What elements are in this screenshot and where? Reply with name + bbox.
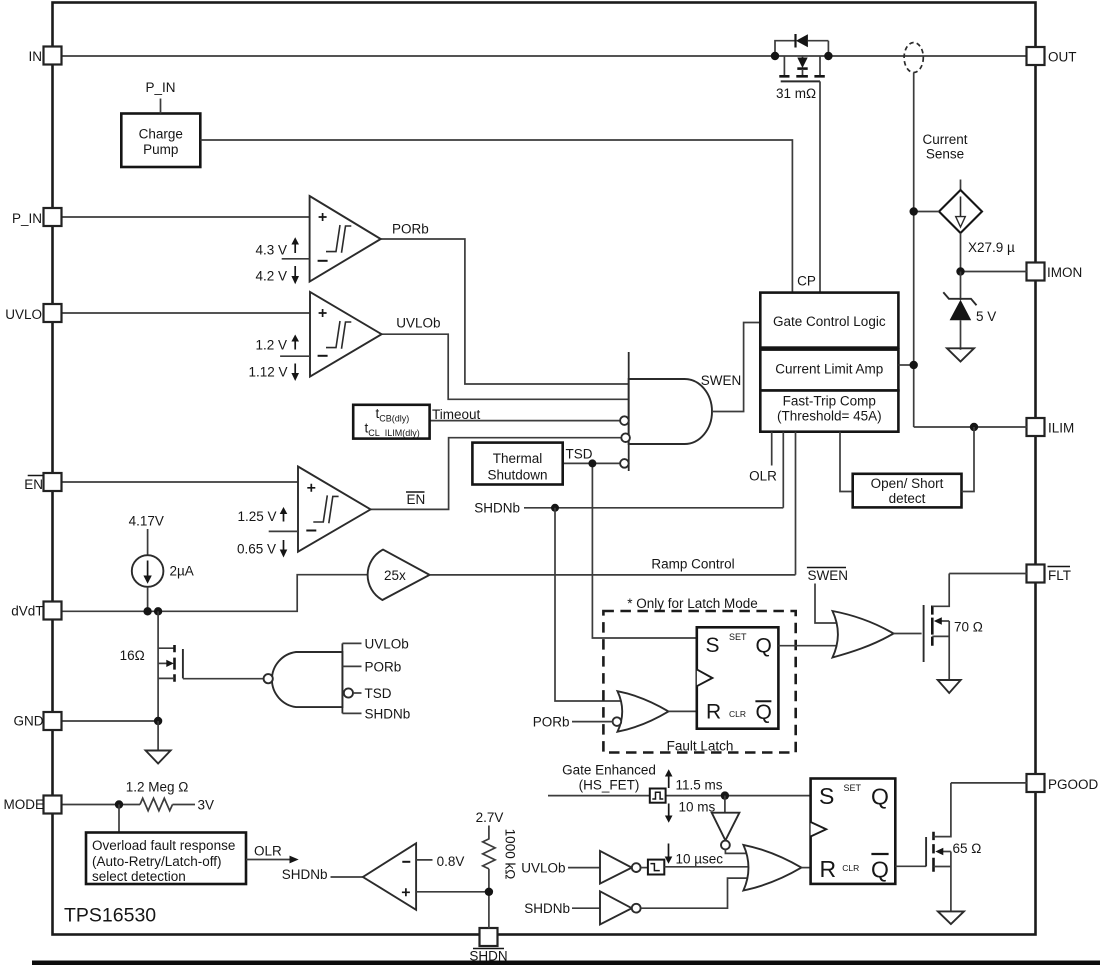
- wire SWEN-bar to FLT OR gate: [815, 584, 848, 624]
- wire EN comparator output to AND gate input 4: [371, 438, 622, 510]
- wire current limit amp output to sense line: [898, 364, 913, 366]
- overload fault response block: [86, 833, 246, 885]
- svg-text:Current Limit Amp: Current Limit Amp: [775, 362, 883, 377]
- svg-text:SWEN: SWEN: [808, 568, 849, 583]
- svg-text:Q: Q: [756, 635, 772, 658]
- svg-text:SHDNb: SHDNb: [524, 901, 570, 916]
- transistor Q4 65 Ohm PGOOD pulldown: [926, 783, 981, 911]
- pin GND: [14, 712, 62, 730]
- svg-text:Shutdown: Shutdown: [487, 468, 547, 483]
- pin MODE: [4, 796, 62, 814]
- svg-text:CP: CP: [797, 274, 816, 289]
- svg-text:X27.9 µ: X27.9 µ: [968, 240, 1015, 255]
- svg-text:select detection: select detection: [92, 869, 186, 884]
- wire one-shot to PGOOD OR gate: [664, 866, 762, 868]
- svg-text:Thermal: Thermal: [493, 451, 543, 466]
- svg-text:Sense: Sense: [926, 147, 964, 162]
- svg-text:Ramp Control: Ramp Control: [651, 557, 734, 572]
- junction dot divider / comparator: [485, 888, 493, 896]
- wire ILIM rail: [914, 426, 1027, 428]
- svg-text:(HS_FET): (HS_FET): [579, 778, 640, 793]
- svg-text:25x: 25x: [384, 568, 406, 583]
- pin IMON: [1027, 263, 1083, 281]
- comparator U4 UVLO (1.2V/1.12V): [310, 292, 382, 377]
- svg-text:Overload fault response: Overload fault response: [92, 838, 235, 853]
- svg-text:4.17V: 4.17V: [129, 514, 164, 529]
- svg-text:65 Ω: 65 Ω: [953, 841, 982, 856]
- pin PGOOD: [1027, 774, 1099, 792]
- wire resistor to 3V: [173, 804, 196, 806]
- wire PORb: comparator output to AND gate input 1: [381, 239, 629, 384]
- ground symbol below Q3: [938, 680, 961, 693]
- top reverse diode D1 across FET: [775, 34, 828, 56]
- svg-text:CLR: CLR: [842, 863, 859, 873]
- amplifier U8 25x ramp amp: [368, 550, 430, 600]
- wire P_IN pin to POR comparator: [62, 216, 310, 218]
- junction dot dVdT rail / FET drain: [154, 607, 162, 615]
- svg-text:EN: EN: [24, 477, 43, 492]
- svg-text:S: S: [819, 783, 834, 809]
- charge pump U2: [121, 114, 200, 168]
- wire 0.8V reference to U12: [416, 854, 464, 869]
- latch U17 PGOOD latch (S/R): [811, 779, 896, 884]
- source stub: [819, 56, 821, 75]
- pin FLT (active low): [1027, 565, 1072, 584]
- svg-text:SWEN: SWEN: [701, 373, 742, 388]
- svg-text:detect: detect: [889, 491, 926, 506]
- bottom page rule: [32, 961, 1100, 965]
- junction dot current source / dVdT rail: [143, 607, 151, 615]
- svg-text:Fault Latch: Fault Latch: [667, 739, 734, 754]
- junction dot GND rail: [154, 717, 162, 725]
- svg-text:P_IN: P_IN: [12, 211, 42, 226]
- svg-text:Current: Current: [922, 132, 967, 147]
- OR gate U16 (PGOOD latch reset): [743, 845, 801, 891]
- transistor Q2 16 Ohm dVdT FET: [120, 611, 264, 721]
- wire fast-trip to open/short detect (left): [840, 432, 853, 492]
- input stub PORb of U7: [342, 660, 401, 675]
- wire U15 output to PGOOD OR gate: [641, 878, 758, 908]
- AND gate U6 (switch enable): [629, 352, 712, 471]
- wire MODE to overload box: [118, 805, 120, 833]
- svg-text:0.65 V: 0.65 V: [237, 542, 276, 557]
- comparator U3 POR (4.3V/4.2V): [310, 196, 381, 282]
- inverter U15 SHDNb: [524, 891, 640, 924]
- svg-text:* Only for Latch Mode: * Only for Latch Mode: [627, 596, 758, 611]
- OR gate U11 (drives FLT FET): [833, 611, 894, 658]
- svg-text:FLT: FLT: [1048, 568, 1071, 583]
- junction dot TSD branch: [588, 459, 596, 467]
- wire SWEN: AND output to Gate Control Logic: [712, 323, 760, 412]
- wire divider to SHDN pin: [488, 869, 490, 929]
- svg-text:(Auto-Retry/Latch-off): (Auto-Retry/Latch-off): [92, 854, 222, 869]
- label Current Sense: [922, 132, 967, 162]
- svg-text:dVdT: dVdT: [11, 604, 43, 619]
- svg-text:Timeout: Timeout: [432, 407, 481, 422]
- svg-text:Pump: Pump: [143, 142, 178, 157]
- fast-trip comparator block: [760, 391, 898, 432]
- body diode stem and arrow: [802, 56, 804, 58]
- wire UVLO pin to UVLO comparator: [62, 312, 310, 314]
- svg-text:OLR: OLR: [749, 469, 777, 484]
- pin SHDN (active low, bottom): [469, 928, 507, 964]
- svg-text:OLR: OLR: [254, 844, 282, 859]
- input stub TSD of U7 (inverted): [344, 686, 392, 701]
- svg-text:IN: IN: [29, 49, 43, 64]
- svg-text:0.8V: 0.8V: [437, 854, 465, 869]
- svg-text:1000 kΩ: 1000 kΩ: [503, 829, 518, 880]
- wire SHDNb riser into block bottom: [782, 432, 784, 508]
- wire Timeout: tCB box to AND gate input 3: [430, 420, 620, 422]
- transistor Q3 70 Ohm FLT pulldown: [924, 574, 983, 680]
- current sense loop (dashed ellipse): [904, 43, 923, 73]
- ground for zener: [947, 348, 974, 361]
- wire gate-enhanced to latch S input: [548, 795, 811, 797]
- net label PORb into U9: [533, 715, 613, 730]
- threshold stub for U4: [280, 355, 310, 357]
- svg-text:(Threshold= 45A): (Threshold= 45A): [777, 409, 882, 424]
- pin EN (active low): [24, 473, 61, 492]
- svg-text:Q: Q: [871, 857, 889, 883]
- dashed box: only for latch mode: [603, 611, 795, 753]
- net label EN-bar (comparator output): [406, 492, 425, 507]
- gate control logic block: [760, 293, 898, 348]
- svg-text:4.2 V: 4.2 V: [255, 269, 287, 284]
- svg-text:1.2 Meg Ω: 1.2 Meg Ω: [126, 780, 189, 795]
- resistor R1 1.2 Meg Ohm: [126, 780, 189, 811]
- wire charge pump output to CP input of gate control logic: [200, 140, 792, 293]
- channel bars: [779, 75, 825, 78]
- pin UVLO: [5, 304, 61, 322]
- label 4.3 V rising: [255, 237, 299, 257]
- svg-text:31 mΩ: 31 mΩ: [776, 86, 816, 101]
- resistor R2 1000 kOhm: [483, 826, 518, 880]
- svg-text:PORb: PORb: [392, 222, 429, 237]
- pin IN: [29, 47, 62, 65]
- wire ramp control: 25x output to fast-trip block drop: [430, 574, 796, 576]
- svg-text:CLR: CLR: [729, 709, 746, 719]
- svg-text:R: R: [820, 856, 837, 882]
- svg-text:Open/ Short: Open/ Short: [871, 476, 944, 491]
- svg-text:PORb: PORb: [533, 715, 570, 730]
- svg-text:16Ω: 16Ω: [120, 648, 145, 663]
- net label SHDNb (mid) and wire to block: [474, 501, 783, 516]
- thermal shutdown block: [472, 443, 562, 485]
- arrow down 10 ms: [665, 800, 716, 823]
- NAND gate U7 (mirrored, drives Q2): [272, 643, 342, 713]
- svg-text:2µA: 2µA: [170, 564, 194, 579]
- comparator U5 EN (1.25V/0.65V): [298, 467, 371, 552]
- gate lead down to gate control logic: [819, 81, 821, 292]
- threshold stub for U3: [282, 258, 310, 260]
- svg-text:Q: Q: [871, 784, 889, 810]
- svg-text:GND: GND: [14, 714, 44, 729]
- junction dot CLA output: [910, 361, 918, 369]
- label 1.25 V rising: [237, 507, 287, 524]
- svg-text:MODE: MODE: [4, 797, 45, 812]
- wire UVLOb: comparator output to AND gate input 2: [382, 334, 629, 399]
- junction dot S line: [721, 791, 729, 799]
- threshold stub for U5: [269, 530, 298, 532]
- svg-text:P_IN: P_IN: [145, 80, 175, 95]
- junction dot SHDNb: [551, 504, 559, 512]
- input stub SHDNb of U7: [342, 707, 410, 722]
- wire dVdT pin to 25x amp: [62, 575, 372, 612]
- svg-text:UVLO: UVLO: [5, 307, 42, 322]
- svg-text:SET: SET: [729, 632, 747, 642]
- pin ILIM: [1027, 418, 1075, 436]
- svg-text:ILIM: ILIM: [1048, 421, 1074, 436]
- svg-text:TSD: TSD: [566, 447, 593, 462]
- svg-text:SHDNb: SHDNb: [282, 867, 328, 882]
- wire SHDNb drop to reset OR gate: [555, 508, 622, 701]
- wire U11 output to Q3 gate: [894, 633, 922, 635]
- svg-text:1.12 V: 1.12 V: [248, 365, 287, 380]
- pulse symbol (deglitch) on S line: [650, 789, 666, 803]
- pin OUT: [1027, 47, 1077, 65]
- svg-text:11.5 ms: 11.5 ms: [676, 778, 723, 793]
- OR gate U9 (fault latch reset): [618, 691, 669, 732]
- svg-text:3V: 3V: [198, 798, 215, 813]
- current limit amp block: [760, 350, 898, 391]
- svg-text:IMON: IMON: [1047, 265, 1082, 280]
- svg-text:Gate Enhanced: Gate Enhanced: [562, 763, 656, 778]
- current-sense dependent source CS1 (diamond): [914, 180, 982, 234]
- svg-text:SHDNb: SHDNb: [474, 501, 520, 516]
- inverting bubble on EN input: [621, 433, 630, 442]
- svg-text:5 V: 5 V: [976, 309, 996, 324]
- wire open/short detect to ILIM: [962, 427, 975, 492]
- svg-text:UVLOb: UVLOb: [365, 637, 409, 652]
- wire TSD branch down to fault latch S input: [592, 463, 696, 638]
- junction dot sense line / diamond: [910, 207, 918, 215]
- junction dot FET-OUT: [824, 52, 832, 60]
- inverter U13 (down): [712, 796, 740, 850]
- svg-text:70 Ω: 70 Ω: [954, 620, 983, 635]
- svg-text:OUT: OUT: [1048, 50, 1077, 65]
- net label OLR with arrow: [246, 844, 299, 864]
- wire IN to OUT (top rail): [62, 55, 1027, 57]
- svg-text:1.2 V: 1.2 V: [255, 338, 287, 353]
- wire FLT rail to pin: [949, 573, 1027, 575]
- ground symbol below Q4: [938, 911, 964, 924]
- wire U9 output to latch R: [669, 710, 697, 712]
- svg-text:1.25 V: 1.25 V: [237, 509, 276, 524]
- label 4.2 V falling: [255, 266, 299, 284]
- junction dot MODE: [115, 800, 123, 808]
- pin dVdT: [11, 602, 61, 620]
- wire U13 output to PGOOD OR gate: [725, 849, 758, 853]
- svg-text:4.3 V: 4.3 V: [255, 243, 287, 258]
- inverting bubble on TSD input: [620, 459, 629, 468]
- delay block tCB(dly) / tCL_ILIM(dly): [353, 405, 429, 439]
- arrow down 10 usec: [665, 844, 724, 867]
- inverting bubble on Timeout input: [620, 416, 629, 425]
- input stub UVLOb of U7: [342, 637, 408, 652]
- svg-text:UVLOb: UVLOb: [396, 316, 440, 331]
- svg-text:10 ms: 10 ms: [679, 800, 716, 815]
- inverter U14 UVLOb: [521, 851, 640, 884]
- svg-text:Gate Control Logic: Gate Control Logic: [773, 314, 886, 329]
- svg-text:Q: Q: [756, 701, 772, 724]
- stub OLR into fast-trip block: [771, 432, 773, 466]
- svg-text:TPS16530: TPS16530: [64, 905, 156, 927]
- wire U16 output to latch R: [801, 867, 810, 869]
- wire EN pin to EN comparator: [62, 481, 298, 483]
- transistor Q1 power FET 31 mOhm with body diode: [776, 56, 825, 293]
- wire ramp control drop from block bottom: [795, 432, 797, 575]
- wire latch Q output to FLT OR gate: [778, 645, 852, 647]
- net label SWEN-bar: [807, 568, 848, 584]
- wire diamond to IMON pin: [961, 233, 1028, 272]
- label Gate Enhanced (HS_FET): [562, 763, 656, 793]
- wire U12 plus input to SHDN divider: [416, 891, 489, 893]
- label 1.2 V rising: [255, 335, 299, 353]
- current source I1 2uA from 4.17V: [129, 514, 194, 612]
- ground symbol below Q2: [146, 721, 171, 764]
- junction dot IMON / zener: [956, 267, 964, 275]
- node P_IN label above charge pump: [145, 80, 175, 114]
- svg-text:S: S: [706, 634, 720, 657]
- wire sense line down to ILIM rail: [913, 73, 915, 427]
- wire TSD: thermal shutdown to AND gate input 5: [563, 462, 620, 464]
- svg-text:R: R: [706, 701, 721, 724]
- gate plate: [781, 80, 820, 82]
- pulse symbol 10 usec one-shot: [641, 860, 665, 875]
- svg-text:TSD: TSD: [365, 686, 392, 701]
- svg-text:PGOOD: PGOOD: [1048, 777, 1099, 792]
- pin P_IN: [12, 208, 62, 226]
- junction dot ILIM / open-short: [970, 423, 978, 431]
- svg-text:10 µsec: 10 µsec: [676, 852, 724, 867]
- junction dot IN-FET: [771, 52, 779, 60]
- label 1.12 V falling: [248, 364, 299, 382]
- latch U10 fault latch (S/R): [697, 627, 779, 728]
- wire GND pin to FET source node: [62, 720, 158, 722]
- svg-text:SET: SET: [844, 783, 862, 793]
- label 0.65 V falling: [237, 540, 287, 558]
- svg-text:2.7V: 2.7V: [476, 810, 504, 825]
- svg-text:Fast-Trip Comp: Fast-Trip Comp: [783, 394, 876, 409]
- output bubble of U7: [264, 674, 273, 683]
- zener diode D2 5V clamp: [943, 272, 996, 350]
- svg-text:Charge: Charge: [139, 127, 183, 142]
- open/short detect block: [853, 474, 962, 508]
- wire MODE pin to resistor: [62, 804, 140, 806]
- comparator U12 OLR select (points left): [282, 843, 416, 910]
- arrow up 11.5 ms: [665, 769, 723, 792]
- svg-text:SHDNb: SHDNb: [365, 707, 411, 722]
- wire PGOOD rail to pin: [951, 782, 1027, 784]
- svg-text:SHDN: SHDN: [469, 949, 507, 964]
- svg-text:EN: EN: [407, 492, 426, 507]
- svg-text:UVLOb: UVLOb: [521, 861, 565, 876]
- svg-text:PORb: PORb: [365, 660, 402, 675]
- inverting bubble PORb input of U9: [613, 717, 622, 726]
- drain stub: [783, 56, 785, 75]
- wire latch Q-bar output to Q4 gate: [895, 865, 926, 867]
